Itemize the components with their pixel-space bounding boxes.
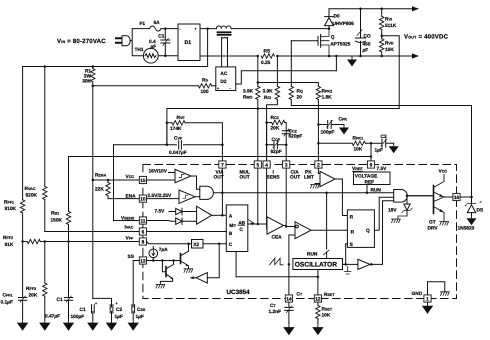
svg-text:Q: Q <box>366 228 370 234</box>
MOSFET Q APT5025 <box>318 34 321 47</box>
wire D1 inputs <box>165 29 178 56</box>
resistor Rff1 910K <box>22 67 24 242</box>
svg-text:RS: RS <box>264 48 271 54</box>
flip-flop RS latch <box>347 210 374 248</box>
svg-text:0.25: 0.25 <box>261 60 271 66</box>
boost diode D0 UHVP806 <box>328 9 330 29</box>
svg-text:1.2nF: 1.2nF <box>269 309 282 315</box>
svg-text:+: + <box>116 302 118 306</box>
wire L1 secondary to D2 box <box>222 38 228 67</box>
ground zener <box>392 219 401 223</box>
ground Cff2 <box>63 319 74 331</box>
transistor Qb soft start <box>162 261 166 272</box>
capacitor C1 0.47uF input <box>164 29 166 56</box>
wire ENA pin to comparator <box>147 198 180 200</box>
wire divider tap to Vsens line <box>382 36 400 109</box>
output capacitor C0 450uF <box>360 9 362 56</box>
capacitor Ccz 620pF <box>285 123 287 145</box>
ground Qa <box>184 269 193 273</box>
AND gate U-enable <box>200 186 214 199</box>
svg-text:R: R <box>350 214 354 220</box>
resistor Rs 100 <box>198 84 211 88</box>
ground DS <box>467 215 477 225</box>
pin 13 SS <box>139 257 146 264</box>
resistor Rff3 20K <box>44 242 46 320</box>
ground CT <box>283 324 294 336</box>
pin 16 GTDRV <box>453 193 460 200</box>
wire Rcz left <box>267 122 272 124</box>
capacitor CT 1.2nF <box>288 302 290 323</box>
wire Ccp left <box>267 123 272 163</box>
svg-text:1µF: 1µF <box>136 314 144 320</box>
wire driver output to pin16 <box>444 196 453 198</box>
svg-text:1: 1 <box>426 296 429 302</box>
svg-text:22K: 22K <box>95 187 104 193</box>
svg-text:7.5V: 7.5V <box>377 166 388 172</box>
svg-text:GT: GT <box>429 220 436 226</box>
wire osc out to S and buffer <box>343 244 358 265</box>
pin 6 IVAC <box>139 228 146 235</box>
wire Vsens node line <box>114 144 223 146</box>
transistor Qa soft start <box>180 254 182 264</box>
svg-text:30K: 30K <box>82 79 91 85</box>
thermistor TH1 <box>143 48 158 63</box>
resistor Rset 10K <box>317 302 319 323</box>
ground C2 <box>106 319 117 331</box>
svg-text:C2: C2 <box>116 307 122 313</box>
svg-text:C1: C1 <box>57 297 63 303</box>
svg-text:2.5V/2.25V: 2.5V/2.25V <box>148 193 173 199</box>
svg-text:DRV: DRV <box>428 226 439 232</box>
svg-text:10K: 10K <box>354 147 363 153</box>
ground C1 <box>87 319 98 331</box>
wire mult out to CEA <box>248 223 267 225</box>
svg-text:7µA: 7µA <box>159 247 168 253</box>
bridge rectifier D1 <box>178 24 200 61</box>
svg-text:1N5820: 1N5820 <box>458 226 475 232</box>
pin 5 MOUT <box>254 161 261 168</box>
pin 9 VREF <box>367 161 374 168</box>
wire R1 line to Rs to D2 <box>93 85 216 87</box>
wire pin7 branch <box>221 145 223 216</box>
svg-text:ENA: ENA <box>126 194 137 200</box>
wire Vcc line to pin 15 <box>93 179 140 181</box>
ground Css <box>128 319 139 331</box>
svg-text:UHVP806: UHVP806 <box>333 21 355 27</box>
svg-text:910K: 910K <box>5 206 17 212</box>
arrowhead sense rail <box>412 53 419 58</box>
svg-text:M=: M= <box>229 223 236 229</box>
multiplier output arrow <box>248 220 254 224</box>
wire Rvf loop <box>167 123 223 145</box>
svg-text:+: + <box>195 27 197 31</box>
svg-text:VOLTAGE: VOLTAGE <box>355 174 378 180</box>
svg-text:CO: CO <box>364 34 371 40</box>
wire CEA out <box>284 226 295 227</box>
arrowhead top rail <box>412 6 419 11</box>
wire X2 to mult C <box>203 243 226 245</box>
svg-text:10K: 10K <box>322 312 331 318</box>
boost inductor L1 <box>216 26 231 29</box>
svg-text:+: + <box>95 302 97 306</box>
svg-text:20K: 20K <box>29 293 38 299</box>
resistor Rq 20 <box>291 41 471 197</box>
soft start internals: current source 7uA <box>149 249 158 258</box>
svg-text:7.5V: 7.5V <box>155 209 166 215</box>
op-amp CEA current error amp <box>267 217 284 234</box>
fuse F1 6A <box>150 26 162 31</box>
svg-text:OUT: OUT <box>290 175 300 181</box>
svg-text:RUN: RUN <box>307 252 318 258</box>
voltage reference block <box>354 172 391 185</box>
buffer clock <box>358 259 370 269</box>
svg-text:100pF: 100pF <box>321 130 335 136</box>
svg-text:1µF: 1µF <box>375 148 383 154</box>
capacitor Cff2 0.47uF on Vff <box>68 242 70 320</box>
svg-text:150K: 150K <box>51 218 63 224</box>
comparator PK LMT <box>320 171 335 186</box>
svg-text:20K: 20K <box>271 126 280 132</box>
AND gate driver <box>394 190 408 203</box>
buffer soft start compare <box>196 273 207 284</box>
svg-text:14: 14 <box>286 296 292 302</box>
wire Vref distribution line <box>69 156 372 158</box>
svg-text:VOUT = 400VDC: VOUT = 400VDC <box>404 34 449 41</box>
wire Vsens upper line <box>167 109 399 145</box>
wire mult bottom to Rset <box>236 252 318 277</box>
wire SS line <box>147 260 181 262</box>
zener 18V <box>406 196 408 204</box>
svg-text:1.8K: 1.8K <box>322 95 333 101</box>
svg-text:DS: DS <box>477 208 484 214</box>
oscillator block <box>293 259 343 270</box>
wire plug to fuse and TH1 <box>130 29 165 56</box>
pin 8 VFF <box>139 238 146 245</box>
wire Rset column <box>317 270 319 296</box>
resistor Rpk2 1.8K <box>317 100 319 163</box>
UC3854 dashed boundary <box>143 165 457 299</box>
svg-text:APT5025: APT5025 <box>330 42 351 48</box>
svg-text:C1: C1 <box>80 307 86 313</box>
svg-text:D2: D2 <box>220 79 226 85</box>
svg-text:100µF: 100µF <box>71 314 85 320</box>
svg-text:18V: 18V <box>388 208 397 214</box>
svg-text:µF: µF <box>362 48 369 54</box>
wire VA out to multiplier <box>212 214 227 216</box>
wire pin16 to gate node <box>460 196 471 198</box>
wire Vsens pin to VA <box>147 220 197 223</box>
svg-text:7: 7 <box>221 162 224 168</box>
wire pin2 to PK comp <box>318 168 320 173</box>
sawtooth waveform <box>270 258 284 265</box>
resistor Rvd 10K <box>381 36 383 56</box>
wire C3 branch <box>371 142 394 144</box>
pin 14 CT <box>285 295 292 302</box>
svg-text:620K: 620K <box>26 193 38 199</box>
wire Cpk branch <box>318 124 337 126</box>
svg-text:LMT: LMT <box>304 175 314 181</box>
wire rectified positive rail to inductor <box>200 28 216 30</box>
svg-text:X2: X2 <box>193 242 199 248</box>
pin 1 GND <box>424 295 431 302</box>
wire AND2 out <box>408 195 434 197</box>
svg-text:6: 6 <box>142 229 145 235</box>
pin 4 ISENS <box>263 161 270 168</box>
svg-text:11: 11 <box>140 218 145 224</box>
svg-text:F1: F1 <box>140 21 146 27</box>
svg-text:TH1: TH1 <box>135 47 144 53</box>
wire pin5 internal <box>257 168 259 224</box>
svg-text:GND: GND <box>412 291 423 297</box>
wire rail tap down to left feed line <box>23 29 208 67</box>
svg-text:C: C <box>229 242 233 248</box>
svg-text:D1: D1 <box>185 40 192 46</box>
ground Rset <box>312 324 323 336</box>
resistor Rmo 3.9K <box>257 56 259 162</box>
aux supply block AC D2 <box>216 67 236 91</box>
pin 3 CAOUT <box>283 161 290 168</box>
svg-text:VIN = 80-270VAC: VIN = 80-270VAC <box>57 38 106 45</box>
capacitor C2 1uF <box>110 305 113 313</box>
svg-text:174K: 174K <box>170 126 182 132</box>
op-amp VA voltage amp <box>197 206 212 224</box>
svg-text:62pF: 62pF <box>271 149 282 155</box>
wire clock to AND2 <box>370 201 394 265</box>
wire Vref pin9 column <box>370 143 372 161</box>
svg-text:CEA: CEA <box>272 235 283 241</box>
svg-text:20: 20 <box>297 95 303 101</box>
svg-text:13: 13 <box>140 258 146 264</box>
svg-text:C: C <box>239 227 243 233</box>
svg-text:AC: AC <box>220 71 227 77</box>
wire Vff line <box>23 241 140 243</box>
wire pin1 hook <box>428 282 445 295</box>
wire Vcc cap bridge <box>93 298 112 307</box>
ground pin1 <box>422 302 433 314</box>
svg-text:10K: 10K <box>385 47 394 53</box>
wire Ivac pin to mult B <box>147 231 227 233</box>
svg-text:4: 4 <box>265 162 268 168</box>
svg-text:9: 9 <box>370 162 373 168</box>
wire Q to AND2 <box>374 197 393 230</box>
transistor driver totem-pole <box>408 195 434 197</box>
resistor Rb1 150K <box>68 157 70 242</box>
resistor Rci 3.9K <box>267 56 278 162</box>
svg-text:511K: 511K <box>385 23 397 29</box>
wire ref to RUN <box>366 185 368 193</box>
diode DS 1N5820 <box>471 197 473 204</box>
resistor R1 3W 30K <box>92 67 94 86</box>
svg-text:3.9K: 3.9K <box>263 89 274 95</box>
svg-text:620pF: 620pF <box>289 134 303 140</box>
pin 2 PKLMT <box>315 161 322 168</box>
resistor Rvi 511K <box>381 9 383 36</box>
wire Vcc trickle line down <box>92 86 94 299</box>
wire Vcc pin to UVLO <box>147 179 176 181</box>
wire inductor to D0/Q node <box>231 28 329 30</box>
svg-text:0.1µF: 0.1µF <box>1 300 13 306</box>
wire PWM out to latch R <box>311 229 347 231</box>
diode clamp 2 <box>176 218 182 224</box>
wire SS pin to Css <box>133 261 139 308</box>
svg-text:D0: D0 <box>334 14 340 20</box>
pin 7 VAOUT <box>219 161 226 168</box>
wire D2 minus to sense rail <box>236 56 337 84</box>
ground C3 <box>389 143 399 153</box>
wire RUN to oscillator <box>326 193 328 259</box>
ground Qb <box>156 284 165 288</box>
wire buffer input from X2 node <box>207 244 219 278</box>
svg-text:15: 15 <box>140 178 146 184</box>
wire bottom sense rail <box>200 55 413 57</box>
wire UVLO out to AND1 <box>191 176 200 189</box>
svg-text:A: A <box>229 213 233 219</box>
ground Rff3 <box>39 319 50 331</box>
wire gate lead <box>291 40 318 42</box>
wire pin4 internal <box>266 168 269 229</box>
wire Rmo node to Rpk2 <box>258 83 319 87</box>
svg-text:B: B <box>229 231 233 237</box>
svg-text:OSCILLATOR: OSCILLATOR <box>295 262 337 269</box>
svg-text:REF: REF <box>365 180 375 186</box>
ground PK comp <box>315 183 320 185</box>
wire Vsens line to pin 11 <box>114 145 140 221</box>
svg-text:C1: C1 <box>158 34 164 40</box>
ground Cpk <box>339 125 349 135</box>
capacitor Cvf 0.047uF <box>177 141 183 149</box>
squarer block X2 <box>192 240 204 249</box>
comparator PWM <box>295 222 311 239</box>
svg-text:OUT: OUT <box>214 175 224 181</box>
svg-text:2: 2 <box>317 162 320 168</box>
pin 12 RSET <box>314 295 321 302</box>
wire RUN line <box>214 192 394 194</box>
capacitor Css 1uF <box>132 305 135 313</box>
svg-text:8: 8 <box>142 239 145 245</box>
svg-text:16: 16 <box>454 195 460 201</box>
wire buffer out arrow <box>191 277 196 279</box>
pin 15 VCC <box>139 176 146 183</box>
wire Vff pin to X2 <box>147 242 192 244</box>
wire ENA comp out to AND1 <box>195 196 200 198</box>
svg-text:0.47µF: 0.47µF <box>45 314 60 320</box>
svg-text:OUT: OUT <box>240 175 250 181</box>
svg-text:SENS: SENS <box>267 175 281 181</box>
pin 11 VSENS <box>139 217 146 224</box>
svg-text:0.047µF: 0.047µF <box>169 150 187 156</box>
wire diode1 to VA <box>182 211 197 213</box>
svg-text:100: 100 <box>201 89 209 95</box>
svg-text:µF: µF <box>150 44 157 50</box>
wire pin3 internal <box>285 168 287 226</box>
sense resistor RS 0.25 <box>259 53 277 60</box>
wire Ivac to pin 6 <box>45 231 140 233</box>
svg-text:5: 5 <box>256 162 259 168</box>
capacitor C1 100uF Vcc <box>92 305 95 313</box>
svg-text:12: 12 <box>315 296 321 302</box>
pin 10 ENA <box>139 195 146 202</box>
svg-text:10: 10 <box>140 196 146 202</box>
resistor Rvac 620K <box>44 67 46 232</box>
ground hatch pin1 <box>441 292 450 296</box>
svg-text:16V/10V: 16V/10V <box>149 168 168 174</box>
svg-text:R: R <box>351 229 355 235</box>
svg-text:C3: C3 <box>381 134 387 140</box>
wire PK comp out to latch <box>335 179 347 216</box>
ground driver emitter <box>440 222 449 226</box>
svg-text:+: + <box>217 86 219 90</box>
svg-text:3.9K: 3.9K <box>243 89 254 95</box>
svg-text:91K: 91K <box>5 242 14 248</box>
internal ground tick <box>345 264 351 274</box>
svg-text:SS: SS <box>128 254 135 260</box>
wire ramp to PWM <box>289 235 295 295</box>
svg-text:RUN: RUN <box>371 187 382 193</box>
multiplier block M=AB/C <box>226 205 248 252</box>
wire Rpk1 branch <box>318 142 371 144</box>
svg-text:Q: Q <box>331 35 335 41</box>
svg-text:1µF: 1µF <box>115 314 123 320</box>
ground Cff1 <box>17 319 28 331</box>
capacitor Cff1 0.1uF <box>22 242 24 320</box>
AC plug P1 <box>116 38 122 43</box>
svg-text:450: 450 <box>363 42 371 48</box>
svg-text:UC3854: UC3854 <box>227 289 251 296</box>
ground symbol at sense rail <box>347 57 357 67</box>
wire output top rail <box>329 8 413 10</box>
svg-text:3: 3 <box>285 162 288 168</box>
svg-text:6A: 6A <box>154 20 161 26</box>
